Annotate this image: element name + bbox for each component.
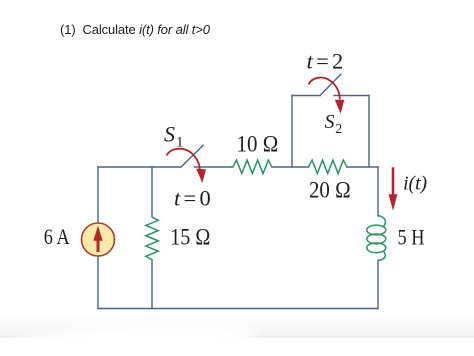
inductor 5H loop 3 — [367, 243, 386, 253]
inductor 5H top hook — [378, 216, 385, 227]
switch S2 blade — [320, 74, 341, 95]
wire box top-right segment (S2 contact to corner) — [334, 95, 369, 97]
svg-text:S: S — [164, 122, 175, 147]
svg-text:S: S — [325, 111, 335, 133]
wire bottom horizontal — [98, 308, 378, 310]
wire 20-ohm to right corner (junction at box right) — [347, 166, 378, 168]
title text — [60, 22, 210, 37]
switch S2 opening arc arrow — [309, 78, 345, 114]
svg-text:10 Ω: 10 Ω — [237, 131, 279, 157]
wire middle branch upper (node to 15-ohm) — [151, 167, 153, 217]
wire S1 contact to 10-ohm resistor — [195, 166, 234, 168]
wire box left vertical — [291, 96, 293, 168]
svg-text:1: 1 — [176, 135, 184, 151]
svg-text:t = 2: t = 2 — [307, 49, 344, 74]
wire right vertical lower (inductor to bottom) — [377, 260, 379, 309]
svg-text:i(t): i(t) — [403, 173, 427, 194]
wire middle branch lower (15-ohm to bottom) — [151, 260, 153, 309]
arrow i(t) — [389, 167, 398, 211]
bottom shade — [0, 314, 474, 338]
svg-text:6 A: 6 A — [44, 224, 70, 249]
wire left vertical upper (to current source) — [97, 167, 99, 223]
resistor 20-ohm zigzag — [309, 160, 347, 174]
wire left vertical lower (current source to bottom) — [97, 256, 99, 309]
wire box right vertical — [368, 96, 370, 168]
wire right vertical upper (to inductor) — [377, 167, 379, 216]
svg-text:15 Ω: 15 Ω — [170, 225, 210, 251]
current source I1 arrow — [93, 226, 102, 253]
wire box top-left segment (to S2 pivot) — [292, 95, 320, 97]
wire top-left horizontal (node A to S1 pivot) — [98, 166, 181, 168]
resistor 10-ohm zigzag — [233, 160, 272, 174]
inductor 5H bottom hook — [378, 252, 385, 261]
inductor 5H loop 2 — [367, 234, 386, 244]
inductor 5H loop 1 — [367, 225, 386, 235]
switch S1 closing arc arrow — [167, 149, 207, 183]
wire 10-ohm to 20-ohm (junction at box left) — [272, 166, 309, 168]
svg-text:5 H: 5 H — [398, 224, 425, 249]
svg-text:20 Ω: 20 Ω — [309, 178, 351, 204]
resistor 15-ohm zigzag — [146, 217, 158, 260]
switch S1 blade — [181, 145, 203, 167]
svg-text:t = 0: t = 0 — [174, 186, 211, 211]
svg-text:2: 2 — [335, 122, 342, 137]
current source I1 circle — [82, 223, 115, 256]
